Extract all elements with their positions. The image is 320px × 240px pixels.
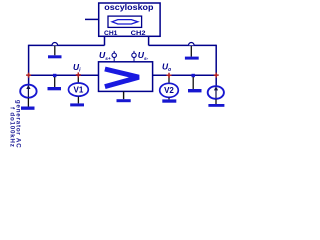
svg-text:oscyloskop: oscyloskop <box>104 3 153 12</box>
load G2 ground <box>215 99 217 104</box>
supply terminal Us+ <box>113 51 115 53</box>
svg-text:V1: V1 <box>74 86 84 95</box>
wire: lower-left bus <box>29 74 99 76</box>
wire: generator top stub <box>28 75 30 84</box>
junction dot mid-right ground <box>192 74 195 77</box>
wire: right vertical drop <box>215 45 217 86</box>
supply terminal Us- <box>133 51 135 53</box>
amplifier box U1 <box>99 62 153 92</box>
wire: lower-right bus <box>153 74 217 76</box>
amplifier chevron symbol <box>105 69 139 87</box>
voltmeter V2 ground <box>168 98 170 100</box>
junction node Ui <box>76 72 81 77</box>
voltmeter V2 <box>160 83 179 97</box>
voltmeter V1 ground <box>77 97 79 104</box>
ground mid-left <box>54 77 56 87</box>
oscilloscope screen rectangle <box>108 16 142 27</box>
wire: top-left bus <box>29 44 105 46</box>
ground top-left <box>54 46 56 55</box>
voltmeter V1 <box>69 83 89 96</box>
junction node right <box>214 73 219 78</box>
wire: CH2 drop <box>148 36 150 45</box>
ground hop top-right <box>189 43 195 46</box>
svg-text:V2: V2 <box>164 86 174 95</box>
svg-text:f do100kHz: f do100kHz <box>9 107 16 148</box>
oscilloscope box <box>99 3 160 36</box>
wire: V2 stub <box>168 76 170 83</box>
generator G1 ground <box>27 98 29 107</box>
svg-text:CH1: CH1 <box>104 31 118 37</box>
oscilloscope screen trace lens <box>112 20 138 24</box>
load source G2 <box>208 86 224 99</box>
ground hop top-left <box>52 43 58 46</box>
wire: V1 stub <box>77 76 79 84</box>
wire: CH1 drop <box>104 36 106 45</box>
wire: top-right bus <box>149 44 217 46</box>
AC generator G1 <box>20 85 36 98</box>
junction dot mid-left ground <box>53 74 56 77</box>
svg-text:CH2: CH2 <box>131 31 147 37</box>
ground mid-right <box>192 77 194 89</box>
amplifier ground <box>123 92 125 100</box>
wire: scope trigger stub <box>85 18 99 20</box>
junction node left <box>26 73 31 78</box>
junction node Uo <box>167 73 172 78</box>
wire: left vertical drop <box>28 45 30 76</box>
ground top-right <box>190 46 192 57</box>
